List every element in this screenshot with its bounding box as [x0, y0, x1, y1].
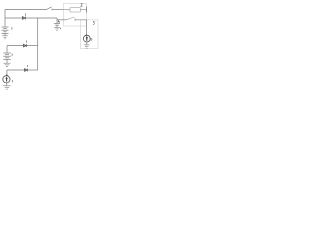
wire capacitor node to relay contact	[57, 19, 67, 21]
wire top bus from battery 1 to switch	[5, 9, 47, 11]
label a (diode a)	[25, 13, 27, 16]
label 5 (motor)	[90, 38, 92, 40]
diode a	[22, 17, 25, 20]
capacitor C1 to ground	[54, 18, 60, 30]
vertical bus joining the three diode wires	[37, 18, 39, 70]
label (battery 2)	[11, 54, 13, 57]
wire 4: current source to diode b to bus	[7, 69, 38, 71]
ground under battery 1	[2, 33, 8, 39]
ground under battery 2	[4, 59, 11, 66]
label b (diode b)	[26, 65, 28, 67]
label 0 (capacitor ground)	[59, 28, 61, 30]
label c (diode c)	[25, 40, 27, 42]
motor M2 circle with arrow	[83, 35, 90, 42]
label (generator)	[11, 80, 13, 82]
label 4 (capacitor)	[58, 20, 59, 23]
label 2 (coil)	[81, 3, 83, 6]
wire down to current source circle	[6, 70, 8, 75]
junction dot at generator top	[6, 74, 7, 75]
switch S1 blade	[47, 7, 53, 10]
relay K1 outline box	[64, 4, 87, 27]
relay coil	[64, 7, 87, 13]
current source / generator circle with arrow	[3, 76, 10, 83]
label 3 (contact node)	[93, 21, 94, 24]
wire 2: node to diode a to capacitor	[5, 17, 57, 19]
ground under motor	[84, 42, 90, 48]
left vertical from top wire to battery 1	[4, 10, 6, 27]
diode c	[23, 44, 26, 47]
junction dot at motor top	[86, 35, 87, 36]
ground under generator	[3, 83, 11, 89]
wire contact down to motor	[85, 20, 87, 35]
label 1 (battery 1)	[11, 27, 13, 30]
relay contact	[67, 17, 87, 21]
wire 3: battery 2 to diode c to bus	[7, 45, 38, 47]
diode b	[25, 69, 28, 72]
battery 1 cells	[2, 27, 9, 33]
wire switch to relay box	[52, 9, 64, 11]
battery 2 cells	[3, 53, 11, 59]
battery 2 drop from wire 3	[6, 46, 8, 53]
motor enclosure box	[80, 20, 98, 49]
